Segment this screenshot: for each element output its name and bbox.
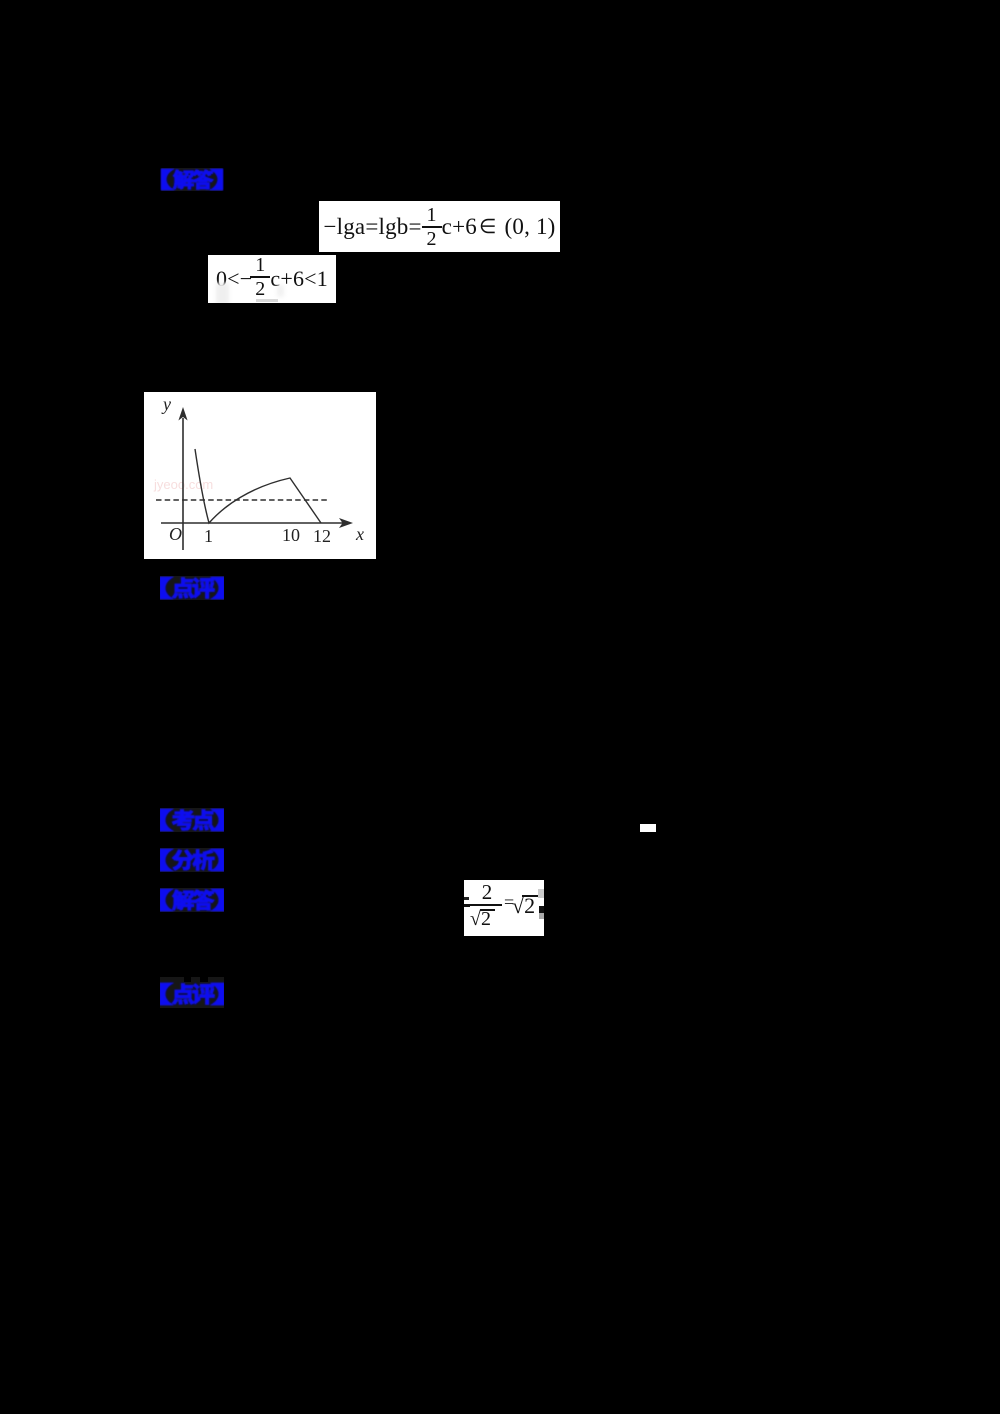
dashed level line: [156, 499, 329, 501]
svg-text:y: y: [161, 394, 171, 414]
curve: [195, 449, 321, 523]
equals sqrt2: [504, 893, 514, 911]
graph panel: [144, 392, 376, 559]
label [dianping] 2: [160, 576, 224, 600]
label [jieda] 1: [160, 168, 224, 191]
white dash: [640, 824, 656, 832]
x-axis: [161, 522, 343, 524]
label [jieda] 5: [160, 888, 224, 912]
y-axis: [182, 418, 184, 550]
right-edge crop mark: [539, 906, 544, 913]
formula box 2: [208, 255, 336, 303]
shared label shapes: [0, 0, 1, 1]
fraction 2 over sqrt2: [472, 882, 502, 903]
svg-text:10: 10: [282, 525, 300, 545]
label [kaodian] 3: [160, 808, 224, 832]
faint underline smudge: [256, 299, 278, 302]
label [fenxi] 4: [160, 848, 224, 872]
svg-text:12: 12: [313, 526, 331, 546]
cropped equals at left: [464, 897, 469, 900]
svg-text:x: x: [355, 524, 364, 544]
formula box 1: [319, 201, 560, 252]
label [dianping] 6: [160, 977, 224, 1008]
gray smudges right edge: [538, 889, 544, 898]
faint watermark ghosts: [216, 283, 229, 304]
small formula box: [464, 880, 544, 936]
svg-text:O: O: [169, 524, 182, 544]
svg-text:1: 1: [204, 526, 213, 546]
